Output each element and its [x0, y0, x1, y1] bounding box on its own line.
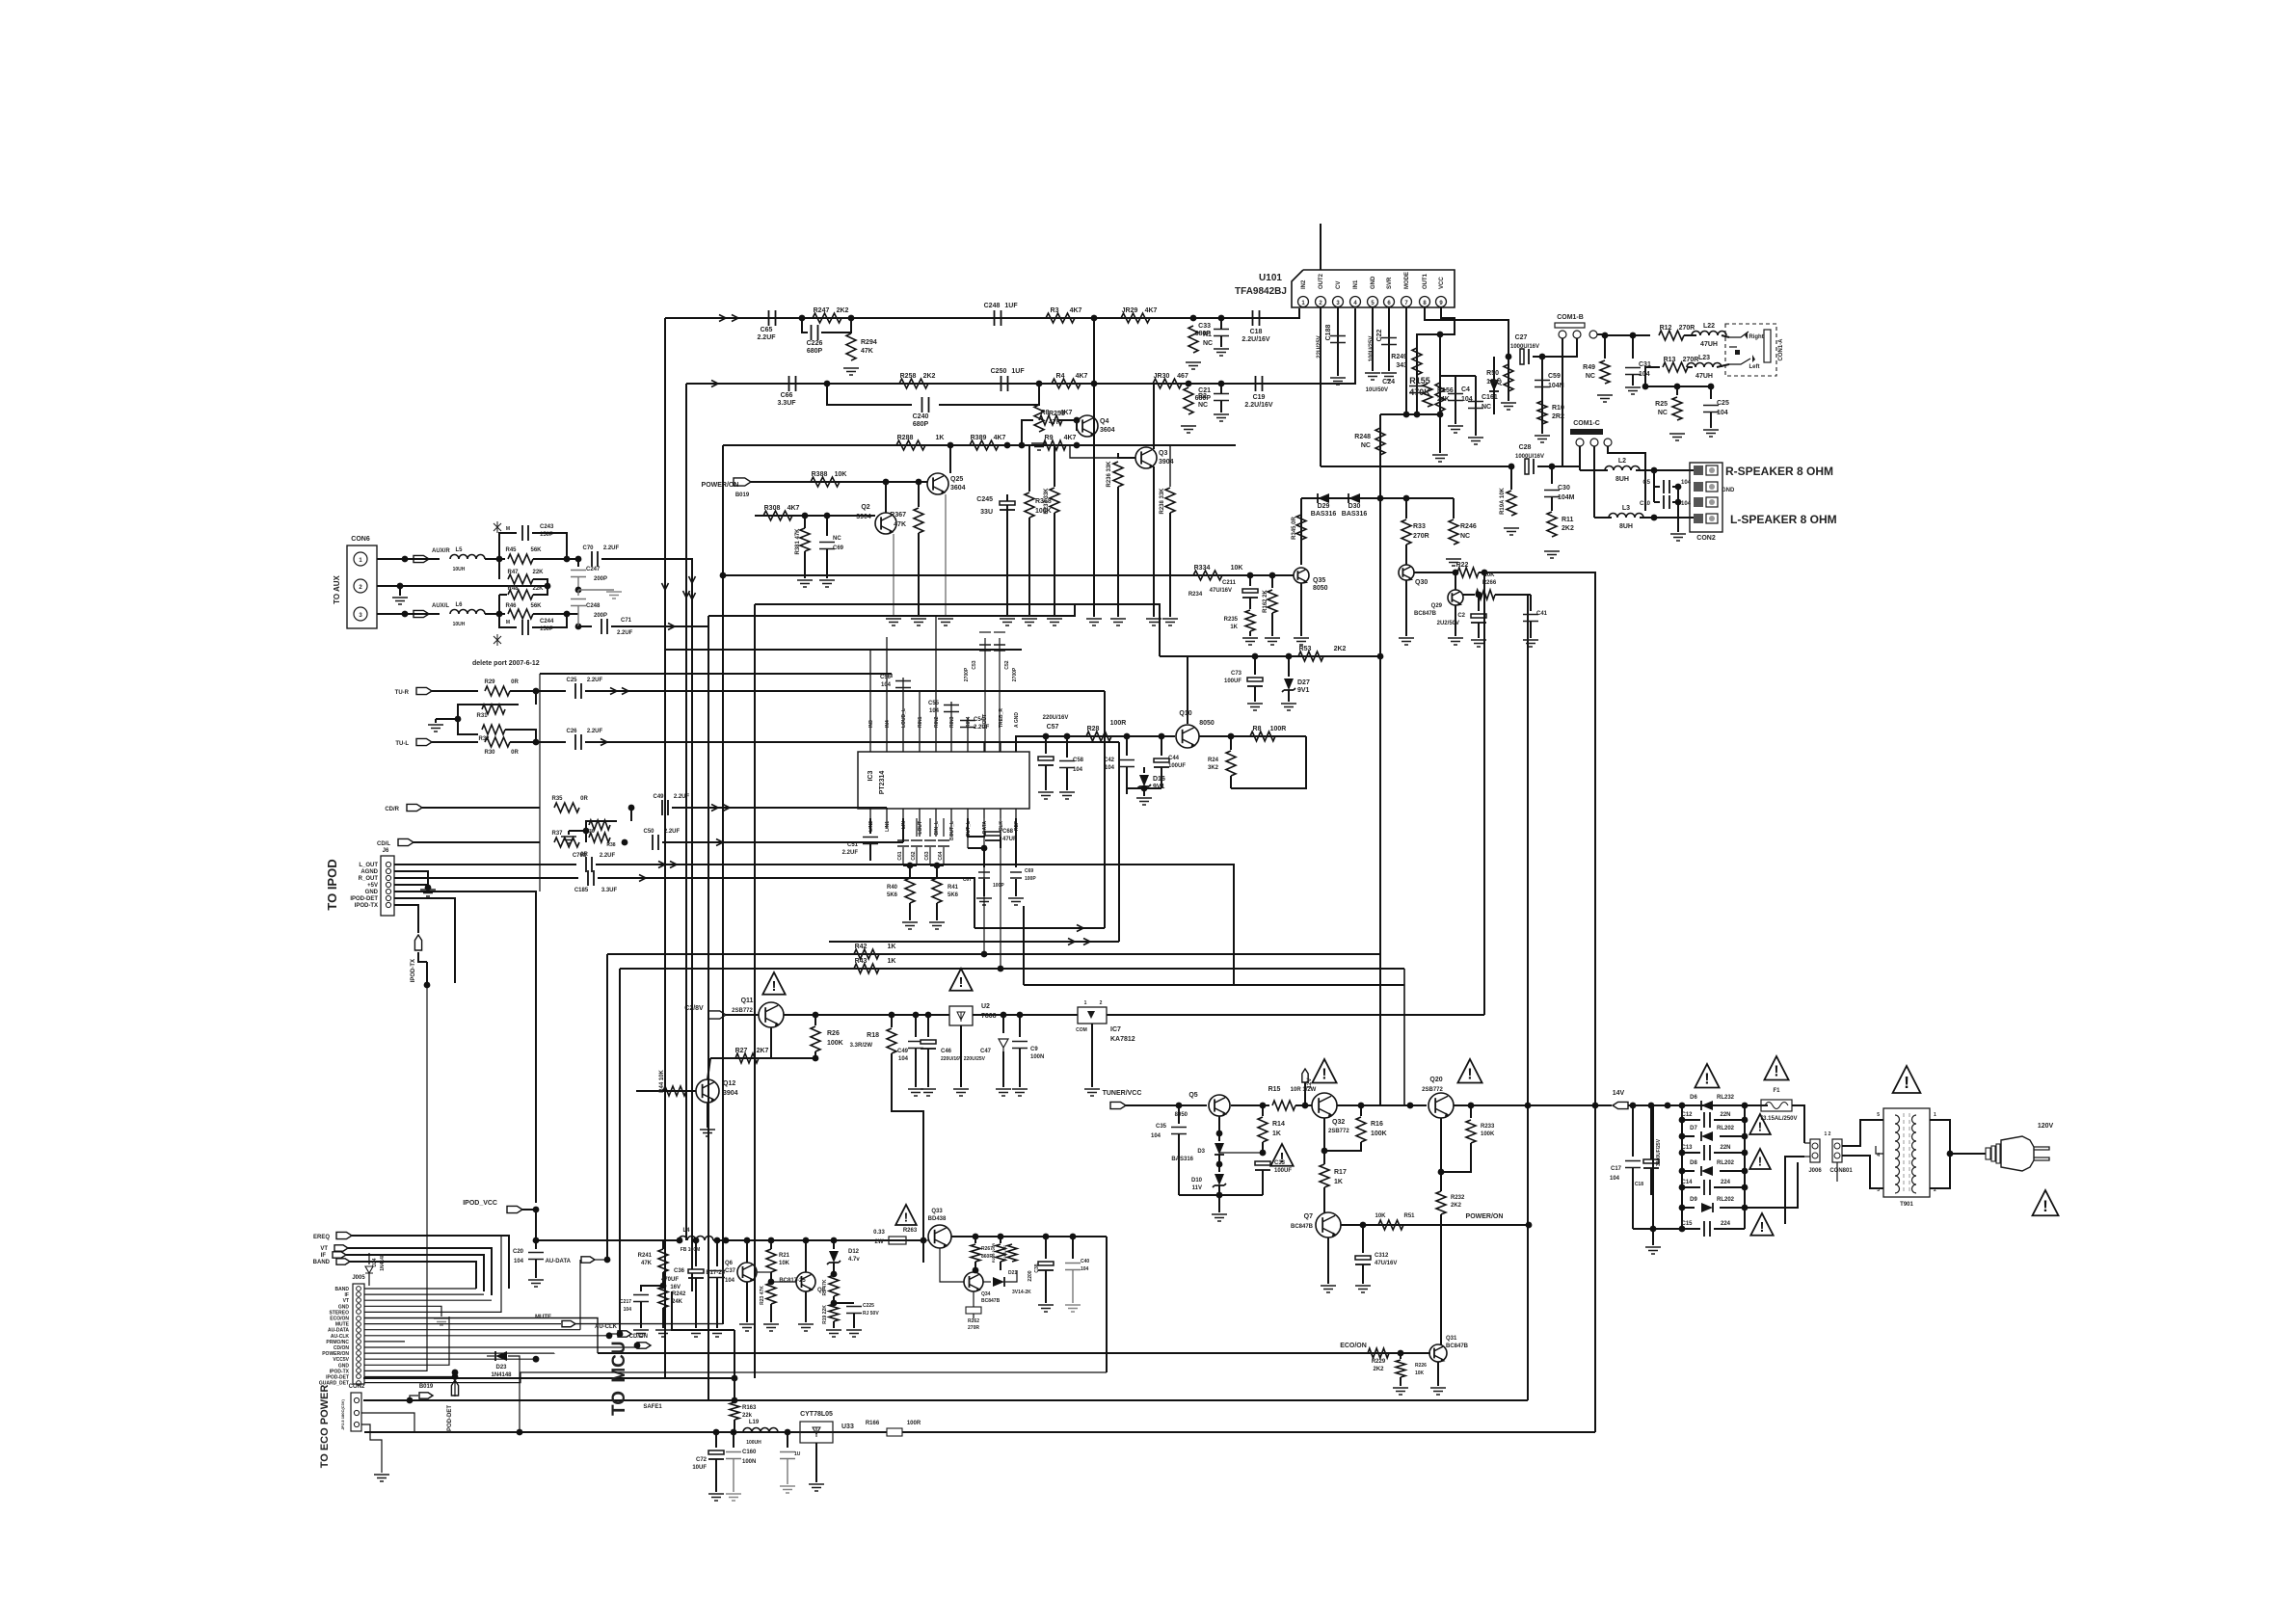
- svg-text:C26: C26: [566, 729, 577, 734]
- resistor R242: [658, 1287, 668, 1308]
- svg-text:R3: R3: [1051, 307, 1059, 314]
- svg-text:100UH: 100UH: [746, 1440, 761, 1446]
- ground: [1038, 792, 1054, 799]
- capacitor C12: [1704, 1112, 1710, 1128]
- capacitor C30: [1551, 466, 1553, 484]
- svg-text:R37: R37: [551, 831, 563, 837]
- pin LOUT of IC3 bottom: [919, 809, 921, 837]
- diode D9 RL202: [1701, 1203, 1713, 1212]
- svg-text:R33: R33: [1413, 523, 1426, 530]
- resistor R263 0.33 2W: [889, 1237, 906, 1244]
- capacitor C248 200P: [577, 590, 579, 596]
- svg-text:0R: 0R: [580, 796, 588, 802]
- wire trunk x712: [685, 384, 687, 1240]
- svg-text:C49: C49: [897, 1049, 909, 1054]
- wire jack L line: [1645, 367, 1660, 386]
- svg-text:C64: C64: [938, 851, 944, 860]
- svg-text:104: 104: [1105, 765, 1115, 771]
- svg-text:C226: C226: [807, 340, 823, 347]
- inductor L19: [743, 1428, 778, 1433]
- svg-text:CYT78L05: CYT78L05: [800, 1411, 833, 1418]
- resistor R162: [1271, 575, 1273, 588]
- svg-text:C9: C9: [1030, 1047, 1038, 1052]
- pin GND of J005: [357, 1363, 361, 1368]
- svg-text:C240: C240: [913, 413, 929, 420]
- svg-text:R367: R367: [890, 512, 906, 519]
- pin ROUT of IC3 top: [983, 742, 985, 752]
- ground: [1086, 619, 1102, 625]
- wire COM1-C pin3 to L speaker line: [1608, 446, 1645, 511]
- svg-text:100K: 100K: [827, 1040, 843, 1047]
- ground: [1212, 1214, 1227, 1221]
- svg-text:!: !: [1467, 1066, 1472, 1082]
- ground: [1393, 1388, 1408, 1395]
- svg-text:R241: R241: [638, 1253, 653, 1259]
- wire C247 gnd: [578, 589, 614, 591]
- wire vertical x762: [734, 1330, 735, 1400]
- svg-text:22K: 22K: [532, 586, 544, 592]
- wire 14V rail: [1628, 1104, 1768, 1106]
- svg-text:BC847B: BC847B: [1446, 1344, 1469, 1349]
- capacitor C55: [944, 705, 959, 712]
- svg-text:R21: R21: [779, 1253, 790, 1259]
- wire transformer secondary right: [1930, 1120, 1950, 1188]
- wire AUX L: [377, 613, 440, 615]
- resistor R47: [498, 559, 500, 579]
- resistor R33: [1405, 498, 1407, 519]
- svg-text:R25: R25: [1655, 401, 1668, 408]
- ground: [1432, 455, 1448, 462]
- wire arrow: [689, 593, 696, 599]
- resistor R267: [974, 1237, 976, 1243]
- wire riser x1062: [1023, 906, 1025, 985]
- svg-text:AU-DATA: AU-DATA: [546, 1259, 572, 1264]
- ground: [1645, 1247, 1661, 1254]
- svg-text:9V1: 9V1: [1297, 687, 1310, 694]
- pin BAND of J005: [357, 1287, 361, 1291]
- svg-text:RL202: RL202: [1717, 1197, 1735, 1203]
- svg-text:R45: R45: [505, 547, 517, 553]
- resistor JR30: [1153, 379, 1182, 388]
- svg-text:R16: R16: [1371, 1121, 1383, 1128]
- resistor R260 NC: [1007, 1244, 1017, 1262]
- ground: [1065, 1305, 1081, 1312]
- svg-text:2.2UF: 2.2UF: [974, 725, 990, 731]
- svg-text:10UH: 10UH: [453, 567, 466, 572]
- svg-text:10UF: 10UF: [692, 1465, 707, 1471]
- svg-text:C50: C50: [643, 829, 654, 835]
- resistor R12: [1659, 331, 1684, 340]
- svg-text:D7: D7: [1690, 1126, 1697, 1131]
- wire con2 pin2: [361, 1413, 414, 1432]
- svg-text:C35: C35: [1156, 1124, 1167, 1130]
- svg-text:4K7: 4K7: [1060, 410, 1073, 416]
- wire trunk x735: [707, 616, 709, 1400]
- wire arrow: [670, 862, 677, 868]
- svg-text:MUTE: MUTE: [535, 1315, 551, 1320]
- zener diode D16: [1143, 771, 1145, 773]
- capacitor C57: [1045, 736, 1047, 754]
- ground: [1446, 559, 1461, 566]
- resistor R258: [899, 379, 928, 388]
- svg-text:220U/25V: 220U/25V: [964, 1056, 986, 1062]
- svg-text:IN2: IN2: [1301, 279, 1307, 289]
- capacitor C21: [1214, 394, 1229, 401]
- resistor R41: [936, 865, 938, 877]
- capacitor C68 47UF: [967, 818, 969, 831]
- capacitor C50: [653, 835, 658, 850]
- svg-text:TO ECO POWER: TO ECO POWER: [319, 1385, 331, 1469]
- wire arrow: [689, 576, 696, 583]
- wire U101 pin5 GND: [1372, 307, 1374, 371]
- svg-text:104: 104: [1073, 767, 1083, 773]
- resistor R308: [763, 511, 792, 520]
- svg-text:Q33: Q33: [931, 1209, 943, 1214]
- capacitor C40: [1072, 1237, 1074, 1259]
- svg-text:IC7: IC7: [1110, 1026, 1121, 1033]
- svg-text:C70: C70: [582, 545, 594, 551]
- resistor R5: [829, 1275, 839, 1296]
- svg-text:!: !: [1904, 1073, 1909, 1092]
- capacitor C35: [1178, 1105, 1180, 1124]
- svg-text:1K: 1K: [888, 958, 896, 965]
- wire horiz y639: [708, 604, 1075, 616]
- pin IPOD-TX of J005: [357, 1369, 361, 1373]
- wire y699 left corner: [539, 674, 541, 891]
- ground: [902, 922, 918, 929]
- wire above U101: [1320, 224, 1322, 270]
- svg-text:GND: GND: [1722, 488, 1735, 493]
- svg-text:2.2UF: 2.2UF: [757, 334, 776, 341]
- svg-text:8UH: 8UH: [1615, 476, 1629, 483]
- svg-text:C10: C10: [1640, 501, 1651, 507]
- transistor Q25: [927, 473, 948, 494]
- capacitor C70: [592, 551, 598, 567]
- svg-text:C248: C248: [586, 603, 601, 609]
- wire au-clk vertical: [619, 969, 621, 1334]
- zener diode D27: [1284, 678, 1294, 690]
- svg-text:104: 104: [881, 682, 892, 688]
- pin GUARD_DET of J005: [357, 1381, 361, 1386]
- resistor R389: [970, 440, 999, 450]
- ground: [1110, 619, 1126, 625]
- svg-text:120V: 120V: [2038, 1123, 2054, 1130]
- pin RIN2 of IC3 top: [935, 616, 937, 752]
- wire horiz y627: [755, 604, 1160, 622]
- transistor Q32: [1312, 1093, 1337, 1118]
- svg-text:B019: B019: [419, 1384, 434, 1390]
- svg-text:R233: R233: [1481, 1124, 1495, 1130]
- svg-text:R49: R49: [1583, 364, 1595, 371]
- ground: [1355, 1286, 1371, 1292]
- svg-text:!: !: [1322, 1066, 1326, 1082]
- transistor Q10: [1176, 725, 1199, 748]
- transistor Q29: [1448, 590, 1463, 605]
- capacitor C49b: [662, 800, 668, 815]
- svg-text:U2: U2: [981, 1003, 990, 1010]
- svg-text:10K: 10K: [1231, 565, 1243, 572]
- ground: [434, 1318, 449, 1325]
- resistor R226: [1400, 1353, 1402, 1359]
- wire PRMO row: [364, 1341, 405, 1343]
- svg-text:RIN1: RIN1: [918, 716, 923, 728]
- svg-text:5K6: 5K6: [948, 892, 959, 898]
- wire arrow: [610, 688, 617, 695]
- svg-text:100UF: 100UF: [1168, 763, 1186, 769]
- svg-text:C68: C68: [1002, 829, 1014, 835]
- capacitor C20: [535, 1240, 537, 1249]
- ground: [428, 725, 443, 732]
- ground: [1012, 1089, 1028, 1096]
- capacitor C38: [1045, 1237, 1047, 1259]
- svg-text:!: !: [1760, 1220, 1765, 1236]
- wire IPOD-TX row: [394, 905, 418, 933]
- capacitor C63: [929, 818, 931, 837]
- svg-text:Q11: Q11: [741, 998, 754, 1004]
- resistor R294: [846, 333, 856, 360]
- svg-text:CON801: CON801: [1829, 1168, 1853, 1174]
- resistor R163: [730, 1402, 739, 1420]
- pin POWER/ON of J005: [357, 1351, 361, 1356]
- resistor R10: [1537, 401, 1547, 424]
- wire base line y462: [723, 444, 1236, 446]
- svg-text:R38: R38: [606, 842, 615, 848]
- svg-text:CD/R: CD/R: [385, 807, 399, 812]
- capacitor C245: [1006, 494, 1008, 617]
- svg-text:2SB772: 2SB772: [732, 1008, 753, 1014]
- resistor R249: [1416, 342, 1418, 414]
- pin GND of J005: [357, 1304, 361, 1309]
- power plug: [1986, 1148, 1990, 1159]
- svg-text:C44: C44: [1168, 756, 1180, 761]
- svg-text:C49: C49: [653, 794, 664, 800]
- svg-text:33U: 33U: [980, 509, 993, 516]
- capacitor C46: [927, 1015, 929, 1037]
- svg-text:PRMO/NC: PRMO/NC: [326, 1340, 349, 1345]
- capacitor C59: [1541, 357, 1543, 434]
- svg-text:2.2U/16V: 2.2U/16V: [1241, 336, 1270, 343]
- wire R_OUT: [394, 877, 578, 879]
- wire STEREO: [364, 1236, 501, 1312]
- svg-text:D8: D8: [1690, 1160, 1697, 1166]
- wire R53 line: [1160, 655, 1380, 657]
- wire R27 line: [710, 1057, 815, 1059]
- wire arrow: [711, 381, 718, 387]
- svg-text:R5 47K: R5 47K: [822, 1279, 828, 1295]
- resistor R8: [1039, 415, 1062, 425]
- wire x1432 long vertical: [1379, 498, 1381, 1105]
- svg-text:47K: 47K: [894, 521, 906, 528]
- svg-text:L-SPEAKER 8 OHM: L-SPEAKER 8 OHM: [1730, 513, 1837, 526]
- svg-text:8050: 8050: [1175, 1112, 1188, 1118]
- svg-text:R50: R50: [1486, 370, 1499, 377]
- svg-text:NC: NC: [1198, 402, 1208, 409]
- ground: [1265, 638, 1280, 645]
- ground: [908, 1089, 923, 1096]
- wire Q12 emitter gnd: [707, 1103, 708, 1128]
- svg-text:C66: C66: [781, 392, 793, 399]
- warning triangle: [1312, 1059, 1336, 1083]
- svg-text:Q3: Q3: [1159, 450, 1167, 457]
- wire Q31 emitter gnd: [1437, 1362, 1439, 1386]
- capacitor C13: [1704, 1145, 1710, 1160]
- svg-text:F1: F1: [1773, 1088, 1780, 1094]
- resistor R334: [1193, 571, 1222, 580]
- svg-text:Q29: Q29: [1431, 603, 1443, 609]
- resistor R2: [1184, 387, 1193, 414]
- svg-text:1000U/16V: 1000U/16V: [1515, 454, 1544, 460]
- resistor R36: [630, 808, 632, 821]
- ground: [726, 1494, 741, 1501]
- ground: [996, 1089, 1011, 1096]
- wire Q7 emitter gnd: [1327, 1237, 1329, 1284]
- svg-text:CD/ON: CD/ON: [334, 1345, 350, 1351]
- capacitor C?b: [787, 1432, 788, 1448]
- svg-text:M: M: [506, 526, 510, 532]
- capacitor C225: [834, 1302, 854, 1304]
- wire corner x697: [672, 1291, 734, 1330]
- svg-text:R47: R47: [507, 570, 519, 575]
- svg-text:1K: 1K: [888, 944, 896, 950]
- svg-text:D21: D21: [1008, 1270, 1017, 1276]
- svg-text:R29: R29: [484, 679, 495, 685]
- svg-text:C72: C72: [696, 1457, 707, 1463]
- svg-text:BC847B: BC847B: [1414, 611, 1437, 617]
- svg-text:R288: R288: [897, 435, 914, 441]
- wire y1430 line: [363, 1377, 734, 1379]
- svg-text:R28: R28: [1087, 726, 1100, 732]
- svg-text:L19: L19: [749, 1420, 760, 1425]
- jack switch contacts: [1729, 332, 1749, 337]
- svg-text:NC: NC: [1361, 442, 1371, 449]
- capacitor C33: [1214, 330, 1229, 336]
- resistor R259 220R: [1000, 1237, 1001, 1243]
- svg-text:!: !: [1280, 1151, 1285, 1166]
- wire safety line y1453: [363, 1399, 1528, 1401]
- capacitor C10: [1654, 501, 1660, 503]
- svg-text:2K2: 2K2: [923, 373, 936, 380]
- svg-text:R236 33K: R236 33K: [1107, 461, 1112, 488]
- resistor R262 270R: [966, 1307, 981, 1314]
- wire arrow: [723, 805, 730, 811]
- svg-text:!: !: [904, 1210, 908, 1224]
- svg-text:3904: 3904: [723, 1090, 738, 1097]
- svg-text:3V14-2K: 3V14-2K: [1012, 1290, 1031, 1295]
- svg-text:270R: 270R: [1679, 325, 1695, 332]
- svg-text:R19A 10K: R19A 10K: [1500, 487, 1506, 514]
- diode D29: [1318, 493, 1329, 503]
- svg-text:BC847B: BC847B: [981, 1298, 1001, 1304]
- warning triangle: [1270, 1144, 1293, 1166]
- svg-text:R166: R166: [866, 1421, 880, 1426]
- ground: [1162, 619, 1178, 625]
- capacitor C69b: [1015, 818, 1017, 867]
- capacitor C2: [1478, 595, 1480, 611]
- ground: [700, 1130, 715, 1136]
- svg-text:ECO/ON: ECO/ON: [1340, 1343, 1367, 1349]
- svg-text:COM1-B: COM1-B: [1557, 314, 1584, 321]
- svg-text:R22: R22: [1456, 562, 1469, 569]
- pin BOUT_L of IC3 bottom: [950, 809, 952, 837]
- svg-text:D27: D27: [1297, 679, 1310, 686]
- capacitor C26: [575, 734, 581, 750]
- svg-text:C17: C17: [1611, 1166, 1622, 1172]
- svg-text:47U/16V: 47U/16V: [1375, 1261, 1397, 1266]
- svg-text:47K: 47K: [861, 348, 873, 355]
- resistor R247: [813, 313, 841, 323]
- svg-text:POWER/ON: POWER/ON: [322, 1351, 349, 1357]
- gnd stub: [436, 718, 458, 720]
- svg-text:ECO/ON: ECO/ON: [330, 1317, 349, 1322]
- ground: [688, 1330, 704, 1337]
- resistor R237 33K vertical: [1054, 445, 1055, 487]
- wire vertical R3/R4 join: [1093, 318, 1095, 445]
- svg-text:C225: C225: [863, 1303, 874, 1309]
- wire au-data vertical: [606, 954, 608, 1260]
- svg-text:NC: NC: [833, 536, 841, 542]
- wire Q4 collector up: [1093, 318, 1095, 415]
- svg-text:470UF: 470UF: [661, 1277, 679, 1283]
- svg-text:1N4148: 1N4148: [380, 1254, 386, 1271]
- svg-text:IPOD_VCC: IPOD_VCC: [463, 1200, 497, 1207]
- svg-text:C27: C27: [1515, 334, 1528, 341]
- pin VT of J005: [357, 1298, 361, 1303]
- svg-text:47UH: 47UH: [1695, 373, 1713, 380]
- net flag CD/L: [398, 838, 414, 845]
- svg-text:AUX/L: AUX/L: [432, 603, 449, 609]
- ground: [1281, 704, 1296, 710]
- svg-text:RL202: RL202: [1717, 1126, 1735, 1131]
- gnd stub cd: [569, 830, 586, 832]
- svg-text:4K7: 4K7: [994, 435, 1006, 441]
- svg-text:IPOD-TX: IPOD-TX: [411, 959, 416, 982]
- svg-text:104: 104: [624, 1307, 632, 1313]
- wire arrow: [639, 875, 646, 882]
- wire Q30 to R22: [1414, 572, 1454, 573]
- resistor R22: [1457, 568, 1479, 577]
- svg-text:NC: NC: [1203, 340, 1213, 347]
- svg-text:R238 33K: R238 33K: [1160, 488, 1165, 515]
- wire arrow: [1083, 939, 1090, 945]
- capacitor C211: [1249, 575, 1251, 586]
- capacitor C62: [916, 818, 918, 837]
- wire AUX R: [377, 558, 440, 560]
- svg-text:R4: R4: [1056, 373, 1065, 380]
- transistor Q3: [1135, 447, 1157, 468]
- wire VDD line y764: [1016, 736, 1175, 752]
- svg-text:LIN1: LIN1: [885, 821, 891, 832]
- svg-text:1UF: 1UF: [1011, 368, 1025, 375]
- svg-text:L5: L5: [455, 547, 463, 553]
- svg-text:RIN4: RIN4: [966, 716, 972, 728]
- svg-text:TFA9842BJ: TFA9842BJ: [1235, 286, 1287, 297]
- pin LIN1 of IC3 bottom: [886, 809, 888, 829]
- capacitor C61: [902, 818, 904, 837]
- ground: [826, 1330, 841, 1337]
- svg-text:104M: 104M: [1558, 494, 1575, 501]
- ground: [1214, 414, 1229, 421]
- ground: [763, 1324, 779, 1331]
- pin LIN of IC3 bottom: [902, 809, 904, 818]
- wire 7808 out: [973, 1014, 1078, 1016]
- svg-text:IN1: IN1: [1353, 279, 1359, 289]
- svg-text:2: 2: [1100, 1000, 1103, 1006]
- svg-text:CD/ON: CD/ON: [629, 1334, 648, 1340]
- svg-text:Q5: Q5: [1188, 1092, 1197, 1099]
- svg-text:Q12: Q12: [723, 1080, 735, 1087]
- svg-text:4K7: 4K7: [788, 505, 800, 512]
- svg-text:COM: COM: [1076, 1027, 1087, 1033]
